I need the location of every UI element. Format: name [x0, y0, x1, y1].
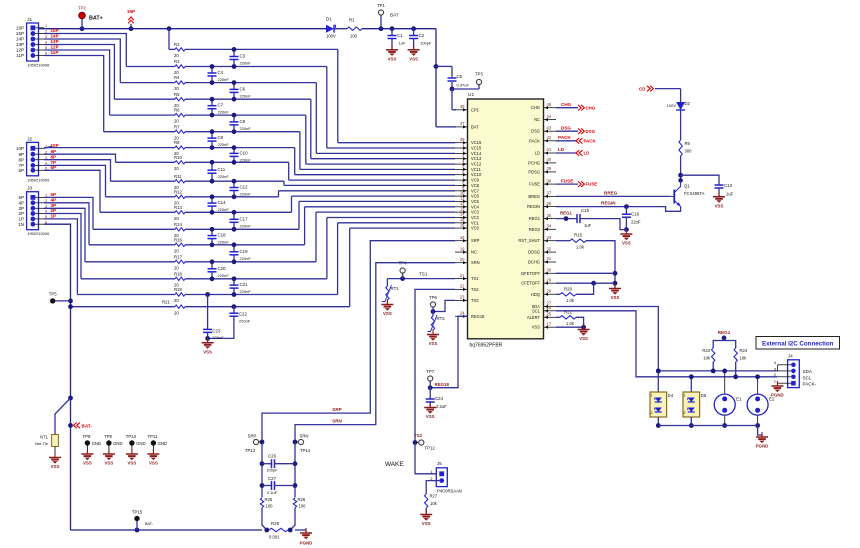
svg-text:10P: 10P	[16, 146, 24, 151]
svg-text:220nF: 220nF	[212, 335, 224, 340]
svg-text:10k: 10k	[430, 501, 438, 506]
svg-text:20: 20	[174, 310, 179, 315]
svg-text:VSS: VSS	[611, 295, 620, 300]
svg-text:10P: 10P	[51, 143, 59, 148]
svg-text:220nF: 220nF	[218, 110, 230, 115]
svg-text:VC6: VC6	[471, 194, 480, 199]
svg-text:C22: C22	[239, 312, 248, 317]
svg-text:220nF: 220nF	[240, 61, 252, 66]
svg-text:100pF: 100pF	[420, 41, 432, 46]
svg-text:GND: GND	[136, 441, 146, 446]
svg-text:38: 38	[547, 178, 552, 183]
svg-text:LD: LD	[535, 151, 540, 156]
svg-text:PACK-: PACK-	[803, 382, 817, 387]
svg-text:REG1: REG1	[718, 330, 731, 335]
svg-text:VC9: VC9	[471, 178, 480, 183]
svg-text:C17: C17	[240, 216, 249, 221]
svg-text:PACK: PACK	[529, 138, 540, 143]
svg-text:R2: R2	[174, 42, 180, 47]
svg-text:TP12: TP12	[425, 446, 436, 451]
svg-text:TX3: TX3	[471, 298, 479, 303]
svg-text:J2: J2	[27, 136, 32, 142]
svg-text:TS1: TS1	[419, 272, 428, 277]
svg-text:VC13: VC13	[471, 156, 482, 161]
svg-text:17: 17	[547, 321, 552, 326]
svg-text:VC4: VC4	[471, 204, 480, 209]
svg-text:Q1: Q1	[684, 184, 690, 189]
svg-text:220nF: 220nF	[240, 256, 252, 261]
svg-text:C8: C8	[240, 119, 246, 124]
svg-text:PCHG: PCHG	[528, 160, 540, 165]
svg-text:SRP: SRP	[248, 434, 257, 439]
svg-text:VC3: VC3	[471, 210, 480, 215]
svg-text:22uF: 22uF	[631, 220, 641, 225]
svg-text:SRP: SRP	[332, 407, 341, 412]
svg-text:REG1: REG1	[560, 211, 573, 216]
svg-text:R5: R5	[174, 92, 180, 97]
svg-text:1: 1	[651, 394, 653, 398]
svg-text:VC8: VC8	[471, 183, 480, 188]
svg-text:GND: GND	[92, 441, 102, 446]
svg-text:5P: 5P	[18, 195, 24, 200]
svg-text:C7: C7	[218, 103, 224, 108]
svg-text:VC7: VC7	[471, 188, 480, 193]
svg-text:BAT: BAT	[471, 124, 479, 129]
svg-text:30: 30	[547, 268, 552, 273]
svg-text:VSS: VSS	[622, 241, 631, 246]
svg-text:20: 20	[174, 86, 179, 91]
svg-text:43: 43	[547, 125, 552, 130]
svg-text:TS2: TS2	[414, 433, 423, 438]
svg-text:11P: 11P	[16, 53, 24, 58]
svg-text:BREG: BREG	[528, 194, 540, 199]
svg-text:R3: R3	[174, 59, 180, 64]
svg-text:LD: LD	[584, 151, 590, 156]
svg-text:R10: R10	[174, 155, 182, 160]
svg-text:U1: U1	[468, 92, 474, 98]
svg-text:20: 20	[174, 53, 179, 58]
svg-text:16P: 16P	[16, 25, 24, 30]
svg-text:BAT+: BAT+	[89, 16, 103, 22]
svg-text:100V: 100V	[326, 34, 336, 39]
svg-text:DSG: DSG	[531, 129, 540, 134]
svg-text:1: 1	[684, 394, 686, 398]
svg-text:C9: C9	[218, 135, 224, 140]
svg-text:REGIN: REGIN	[527, 204, 540, 209]
svg-text:BAT: BAT	[390, 13, 399, 18]
svg-text:20: 20	[174, 248, 179, 253]
svg-text:32: 32	[547, 246, 552, 251]
svg-text:1P: 1P	[18, 217, 24, 222]
svg-text:0.1uF: 0.1uF	[267, 490, 278, 495]
svg-text:FUSE: FUSE	[586, 182, 598, 187]
svg-text:13P: 13P	[51, 39, 59, 44]
svg-text:9P: 9P	[51, 149, 57, 154]
svg-text:BAT-: BAT-	[82, 423, 93, 428]
svg-text:VSS: VSS	[105, 461, 114, 466]
svg-text:PACK: PACK	[584, 138, 597, 143]
svg-text:TX1: TX1	[471, 276, 479, 281]
svg-text:47: 47	[460, 121, 465, 126]
svg-text:C21: C21	[240, 282, 249, 287]
svg-text:220nF: 220nF	[240, 192, 252, 197]
svg-text:R28: R28	[271, 521, 280, 526]
svg-text:R11: R11	[174, 174, 182, 179]
svg-text:20: 20	[460, 257, 465, 262]
svg-text:PACK: PACK	[558, 135, 571, 140]
svg-text:SCL: SCL	[803, 375, 812, 380]
svg-text:NC: NC	[471, 250, 477, 255]
svg-text:1950210005: 1950210005	[27, 177, 50, 182]
svg-text:1950210006: 1950210006	[27, 231, 50, 236]
svg-text:P4C0RSAAN: P4C0RSAAN	[437, 489, 462, 494]
svg-text:4P: 4P	[18, 200, 24, 205]
svg-text:VSS: VSS	[388, 57, 397, 62]
svg-text:VC5: VC5	[471, 199, 480, 204]
svg-text:CHG: CHG	[561, 102, 572, 107]
svg-text:21: 21	[460, 273, 465, 278]
svg-text:CHG: CHG	[586, 105, 596, 110]
svg-text:34: 34	[547, 224, 552, 229]
svg-text:100pF: 100pF	[266, 467, 278, 472]
svg-text:VSS: VSS	[149, 461, 158, 466]
svg-text:E1: E1	[736, 397, 742, 402]
svg-text:16: 16	[460, 222, 465, 227]
svg-text:R4: R4	[174, 75, 180, 80]
svg-text:6P: 6P	[18, 168, 24, 173]
svg-text:REG1: REG1	[529, 216, 541, 221]
svg-text:TP13: TP13	[245, 448, 256, 453]
svg-text:C27: C27	[268, 476, 277, 481]
svg-text:VC1: VC1	[471, 220, 480, 225]
svg-text:VC2: VC2	[471, 215, 480, 220]
svg-text:J3: J3	[27, 186, 32, 192]
svg-text:220nF: 220nF	[218, 207, 230, 212]
svg-text:2: 2	[684, 411, 686, 415]
svg-text:15: 15	[460, 217, 465, 222]
svg-text:C6: C6	[240, 86, 246, 91]
svg-text:25: 25	[547, 312, 552, 317]
svg-text:HDQ: HDQ	[531, 292, 540, 297]
svg-text:D1: D1	[326, 17, 332, 22]
svg-text:TP8: TP8	[82, 434, 90, 439]
svg-text:2P: 2P	[18, 211, 24, 216]
svg-text:VC10: VC10	[471, 172, 482, 177]
svg-text:REG2: REG2	[529, 227, 541, 232]
svg-text:VSS: VSS	[83, 461, 92, 466]
svg-text:C16: C16	[631, 212, 640, 217]
svg-text:10: 10	[460, 190, 465, 195]
svg-text:SRP: SRP	[471, 238, 480, 243]
svg-text:SDA: SDA	[803, 369, 813, 374]
svg-text:28: 28	[547, 289, 552, 294]
svg-text:C14: C14	[218, 200, 227, 205]
svg-text:23: 23	[460, 295, 465, 300]
svg-text:2: 2	[651, 411, 653, 415]
svg-text:CFETOFF: CFETOFF	[521, 281, 540, 286]
svg-text:DFETOFF: DFETOFF	[521, 271, 540, 276]
svg-text:TP7: TP7	[426, 369, 434, 374]
svg-text:5P: 5P	[51, 192, 57, 197]
svg-text:1P: 1P	[51, 214, 57, 219]
svg-text:1uF: 1uF	[584, 223, 592, 228]
svg-text:PGND: PGND	[756, 444, 769, 449]
svg-text:Net-Tie: Net-Tie	[35, 441, 49, 446]
svg-text:VSS: VSS	[532, 325, 540, 330]
svg-text:REG18: REG18	[435, 382, 450, 387]
svg-text:100: 100	[299, 504, 307, 509]
svg-text:41: 41	[547, 147, 552, 152]
svg-text:14: 14	[460, 212, 465, 217]
svg-text:8P: 8P	[51, 154, 57, 159]
svg-text:DSG: DSG	[586, 129, 596, 134]
svg-text:TP1: TP1	[377, 3, 385, 8]
svg-text:FUSE: FUSE	[561, 178, 573, 183]
svg-text:12P: 12P	[51, 45, 59, 50]
svg-text:FCX495TA: FCX495TA	[684, 191, 705, 196]
svg-text:J5: J5	[437, 461, 442, 466]
svg-text:TP5: TP5	[49, 292, 57, 297]
svg-text:VC14: VC14	[471, 151, 482, 156]
svg-text:VSS: VSS	[51, 464, 60, 469]
svg-text:R18: R18	[174, 271, 182, 276]
svg-text:R1: R1	[349, 18, 355, 23]
svg-text:15P: 15P	[51, 28, 59, 33]
svg-text:1950210006: 1950210006	[27, 63, 50, 68]
svg-text:PGND: PGND	[771, 393, 784, 398]
svg-text:R9: R9	[685, 141, 691, 146]
svg-text:49: 49	[460, 137, 465, 142]
svg-text:C18: C18	[218, 233, 227, 238]
svg-text:R22: R22	[564, 309, 573, 314]
svg-text:100V: 100V	[667, 103, 677, 108]
svg-text:13: 13	[460, 206, 465, 211]
svg-text:220nF: 220nF	[240, 157, 252, 162]
svg-text:ALERT: ALERT	[527, 315, 541, 320]
svg-text:24: 24	[460, 311, 465, 316]
svg-text:300: 300	[685, 149, 693, 154]
svg-text:39: 39	[547, 166, 552, 171]
svg-text:REG18: REG18	[471, 314, 485, 319]
svg-text:20: 20	[174, 119, 179, 124]
svg-text:C11: C11	[218, 167, 226, 172]
svg-text:C20: C20	[218, 266, 227, 271]
svg-text:R27: R27	[430, 494, 438, 499]
svg-text:220nF: 220nF	[240, 223, 252, 228]
svg-text:TP6: TP6	[429, 295, 437, 300]
svg-text:VC12: VC12	[471, 162, 482, 167]
svg-text:TX2: TX2	[471, 287, 479, 292]
svg-text:42: 42	[547, 135, 552, 140]
svg-text:VSS: VSS	[429, 341, 438, 346]
svg-text:D2: D2	[685, 101, 691, 106]
svg-text:11P: 11P	[51, 50, 59, 55]
svg-text:R26: R26	[298, 497, 306, 502]
svg-text:R25: R25	[265, 497, 273, 502]
svg-text:VC16: VC16	[471, 140, 482, 145]
svg-text:1.0k: 1.0k	[566, 298, 575, 303]
svg-text:DDSG: DDSG	[528, 250, 540, 255]
svg-text:22: 22	[460, 284, 465, 289]
svg-text:WAKE: WAKE	[385, 461, 404, 468]
svg-text:10k: 10k	[740, 356, 748, 361]
svg-text:220nF: 220nF	[240, 93, 252, 98]
svg-text:220nF: 220nF	[218, 142, 230, 147]
svg-text:R14: R14	[174, 222, 182, 227]
svg-text:VC0: VC0	[471, 226, 480, 231]
svg-text:TP11: TP11	[147, 434, 158, 439]
svg-text:SRN: SRN	[471, 260, 480, 265]
svg-text:40: 40	[547, 157, 552, 162]
svg-text:C10: C10	[240, 150, 249, 155]
svg-text:VSS: VSS	[203, 349, 212, 354]
svg-text:18: 18	[460, 235, 465, 240]
svg-text:48: 48	[460, 104, 465, 109]
svg-text:REGIN: REGIN	[601, 201, 616, 206]
svg-text:12: 12	[460, 201, 465, 206]
svg-text:VSS: VSS	[409, 57, 418, 62]
svg-text:LD: LD	[558, 147, 565, 152]
svg-text:VC15: VC15	[471, 146, 482, 151]
svg-text:TP3: TP3	[475, 72, 483, 77]
svg-text:RST_SHUT: RST_SHUT	[518, 238, 540, 243]
svg-text:14P: 14P	[16, 37, 24, 42]
svg-text:SCL: SCL	[532, 308, 541, 313]
svg-text:14P: 14P	[51, 34, 59, 39]
svg-text:R6: R6	[174, 108, 180, 113]
svg-text:R8: R8	[174, 140, 180, 145]
svg-text:26: 26	[547, 305, 552, 310]
svg-text:VSS: VSS	[579, 336, 588, 341]
svg-text:CHG: CHG	[531, 105, 540, 110]
svg-text:RT2: RT2	[437, 316, 446, 321]
svg-text:SRN: SRN	[299, 434, 308, 439]
svg-text:37: 37	[547, 191, 552, 196]
svg-text:C24: C24	[435, 396, 444, 401]
svg-text:220nF: 220nF	[240, 126, 252, 131]
svg-text:2.2uF: 2.2uF	[436, 404, 447, 409]
svg-text:12P: 12P	[16, 48, 24, 53]
svg-text:GND: GND	[158, 441, 168, 446]
svg-text:BAT-: BAT-	[145, 522, 154, 526]
svg-text:1uF: 1uF	[726, 192, 734, 197]
svg-text:20: 20	[174, 166, 179, 171]
svg-text:VC11: VC11	[471, 167, 482, 172]
svg-text:GND: GND	[113, 441, 123, 446]
svg-text:220nF: 220nF	[218, 174, 230, 179]
svg-text:35: 35	[547, 213, 552, 218]
svg-text:1.0k: 1.0k	[576, 245, 585, 250]
svg-text:TP9: TP9	[104, 434, 112, 439]
svg-text:VSS: VSS	[715, 203, 724, 208]
svg-text:1uF: 1uF	[399, 41, 406, 46]
svg-text:TP2: TP2	[78, 6, 86, 11]
svg-text:RT1: RT1	[391, 286, 400, 291]
svg-text:D4: D4	[668, 393, 674, 398]
svg-text:1N: 1N	[18, 222, 24, 227]
svg-text:R7: R7	[174, 124, 180, 129]
svg-text:DCHG: DCHG	[528, 260, 540, 265]
svg-text:R16: R16	[174, 237, 182, 242]
svg-text:R21: R21	[162, 299, 170, 304]
svg-text:220nF: 220nF	[240, 289, 252, 294]
svg-text:PGND: PGND	[300, 541, 313, 546]
svg-text:0.001: 0.001	[269, 535, 280, 540]
svg-text:36: 36	[547, 201, 552, 206]
svg-text:C3: C3	[240, 54, 246, 59]
svg-text:R23: R23	[702, 348, 710, 353]
svg-text:DSG: DSG	[561, 125, 571, 130]
svg-text:VSS: VSS	[383, 311, 392, 316]
svg-text:29: 29	[547, 277, 552, 282]
svg-text:J1: J1	[27, 17, 32, 23]
svg-text:C19: C19	[240, 249, 249, 254]
svg-text:19: 19	[460, 246, 465, 251]
svg-text:VSS: VSS	[128, 461, 137, 466]
svg-text:C26: C26	[268, 454, 277, 459]
svg-text:TP15: TP15	[132, 510, 143, 515]
svg-text:TP10: TP10	[126, 434, 137, 439]
svg-text:100: 100	[266, 504, 274, 509]
svg-text:0.47uF: 0.47uF	[457, 83, 470, 88]
svg-text:C1: C1	[397, 33, 403, 38]
svg-text:C15: C15	[581, 208, 590, 213]
svg-text:NT1: NT1	[40, 435, 49, 440]
svg-text:R24: R24	[740, 348, 748, 353]
svg-text:11: 11	[460, 196, 465, 201]
svg-text:R17: R17	[174, 254, 182, 259]
svg-text:PDSG: PDSG	[528, 169, 540, 174]
svg-text:15P: 15P	[16, 31, 24, 36]
svg-text:VSS: VSS	[426, 414, 435, 419]
svg-text:1.0k: 1.0k	[566, 321, 575, 326]
svg-text:16P: 16P	[127, 9, 135, 14]
svg-text:CP1: CP1	[471, 107, 480, 112]
svg-text:220nF: 220nF	[218, 240, 230, 245]
svg-text:CD: CD	[639, 87, 646, 92]
svg-text:9P: 9P	[18, 152, 24, 157]
svg-text:R13: R13	[174, 205, 182, 210]
svg-text:External I2C Connection: External I2C Connection	[762, 340, 834, 347]
svg-text:20: 20	[174, 298, 179, 303]
svg-text:13P: 13P	[16, 42, 24, 47]
svg-text:8P: 8P	[18, 157, 24, 162]
svg-text:C23: C23	[212, 328, 221, 333]
svg-text:33: 33	[547, 235, 552, 240]
svg-text:20: 20	[174, 216, 179, 221]
svg-text:45: 45	[547, 102, 552, 107]
svg-text:C4: C4	[218, 70, 224, 75]
svg-text:BREG: BREG	[604, 190, 618, 195]
svg-text:J4: J4	[788, 354, 793, 359]
svg-text:D5: D5	[701, 393, 707, 398]
svg-text:C12: C12	[240, 185, 249, 190]
svg-text:VSS: VSS	[422, 521, 431, 526]
svg-text:R20: R20	[564, 286, 573, 291]
svg-text:SRN: SRN	[332, 419, 342, 424]
svg-text:R12: R12	[174, 189, 182, 194]
svg-text:C13: C13	[724, 183, 733, 188]
svg-text:100: 100	[350, 34, 358, 39]
svg-text:R15: R15	[574, 233, 583, 238]
svg-text:10k: 10k	[703, 356, 711, 361]
svg-text:4P: 4P	[51, 198, 57, 203]
svg-text:NC: NC	[534, 117, 540, 122]
svg-text:R19: R19	[174, 287, 182, 292]
svg-text:FUSE: FUSE	[529, 182, 540, 187]
svg-text:bq76952PFBR: bq76952PFBR	[470, 342, 503, 348]
svg-text:220nF: 220nF	[239, 318, 251, 323]
